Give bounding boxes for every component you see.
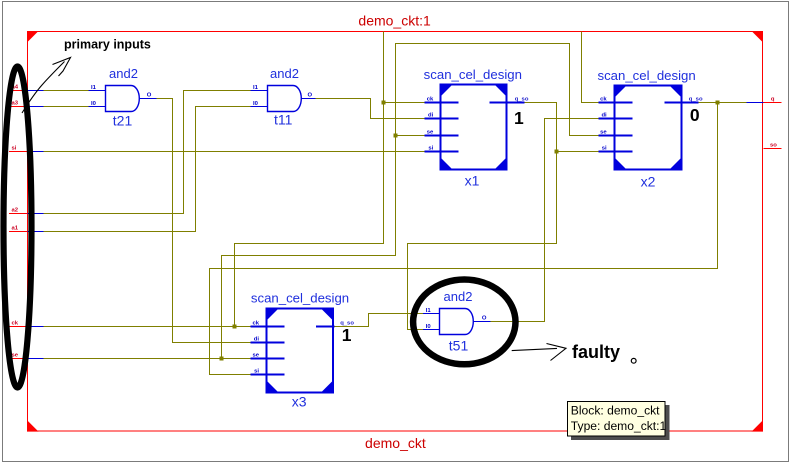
- svg-text:I1: I1: [91, 85, 97, 91]
- svg-text:t11: t11: [274, 112, 293, 128]
- svg-text:Block: demo_ckt: Block: demo_ckt: [571, 403, 660, 417]
- svg-text:si: si: [602, 146, 607, 152]
- svg-text:O: O: [147, 92, 152, 98]
- svg-text:ck: ck: [252, 321, 259, 327]
- svg-text:t21: t21: [113, 113, 133, 129]
- svg-text:and2: and2: [444, 289, 473, 304]
- svg-text:si: si: [254, 369, 259, 375]
- svg-text:t51: t51: [449, 338, 469, 354]
- svg-text:se: se: [12, 353, 19, 359]
- svg-text:demo_ckt: demo_ckt: [365, 435, 426, 451]
- svg-text:0: 0: [690, 105, 700, 125]
- svg-text:q_so: q_so: [515, 96, 529, 102]
- svg-text:x1: x1: [465, 173, 480, 189]
- svg-text:I0: I0: [91, 101, 97, 107]
- svg-text:O: O: [482, 315, 487, 321]
- svg-text:1: 1: [514, 108, 524, 128]
- svg-text:O: O: [308, 92, 313, 98]
- svg-text:I0: I0: [253, 101, 259, 107]
- svg-text:q_so: q_so: [689, 96, 703, 102]
- svg-text:I1: I1: [253, 85, 259, 91]
- svg-text:scan_cel_design: scan_cel_design: [597, 68, 695, 83]
- svg-text:di: di: [428, 113, 434, 119]
- svg-text:scan_cel_design: scan_cel_design: [251, 290, 349, 305]
- svg-text:se: se: [427, 130, 434, 136]
- svg-text:se: se: [252, 353, 259, 359]
- svg-text:q: q: [771, 97, 775, 103]
- svg-text:demo_ckt:1: demo_ckt:1: [358, 13, 431, 29]
- svg-text:and2: and2: [270, 66, 299, 81]
- svg-text:se: se: [600, 130, 607, 136]
- svg-text:ck: ck: [600, 97, 607, 103]
- svg-text:ck: ck: [12, 321, 19, 327]
- svg-text:and2: and2: [109, 66, 138, 81]
- svg-text:ck: ck: [427, 97, 434, 103]
- svg-text:I1: I1: [426, 308, 432, 314]
- svg-text:a2: a2: [12, 208, 19, 214]
- svg-text:si: si: [428, 146, 433, 152]
- svg-text:a3: a3: [12, 101, 19, 107]
- svg-text:scan_cel_design: scan_cel_design: [424, 67, 522, 82]
- svg-text:so: so: [770, 142, 777, 148]
- svg-text:primary inputs: primary inputs: [64, 38, 151, 52]
- svg-text:di: di: [254, 337, 260, 343]
- svg-text:faulty: faulty: [572, 342, 620, 362]
- svg-text:Type: demo_ckt:1: Type: demo_ckt:1: [571, 419, 667, 433]
- svg-text:a1: a1: [12, 226, 19, 232]
- svg-text:x3: x3: [292, 394, 307, 410]
- svg-text:I0: I0: [426, 324, 432, 330]
- svg-text:1: 1: [342, 325, 352, 345]
- svg-text:si: si: [12, 146, 17, 152]
- svg-text:x2: x2: [641, 174, 656, 190]
- svg-text:di: di: [601, 113, 607, 119]
